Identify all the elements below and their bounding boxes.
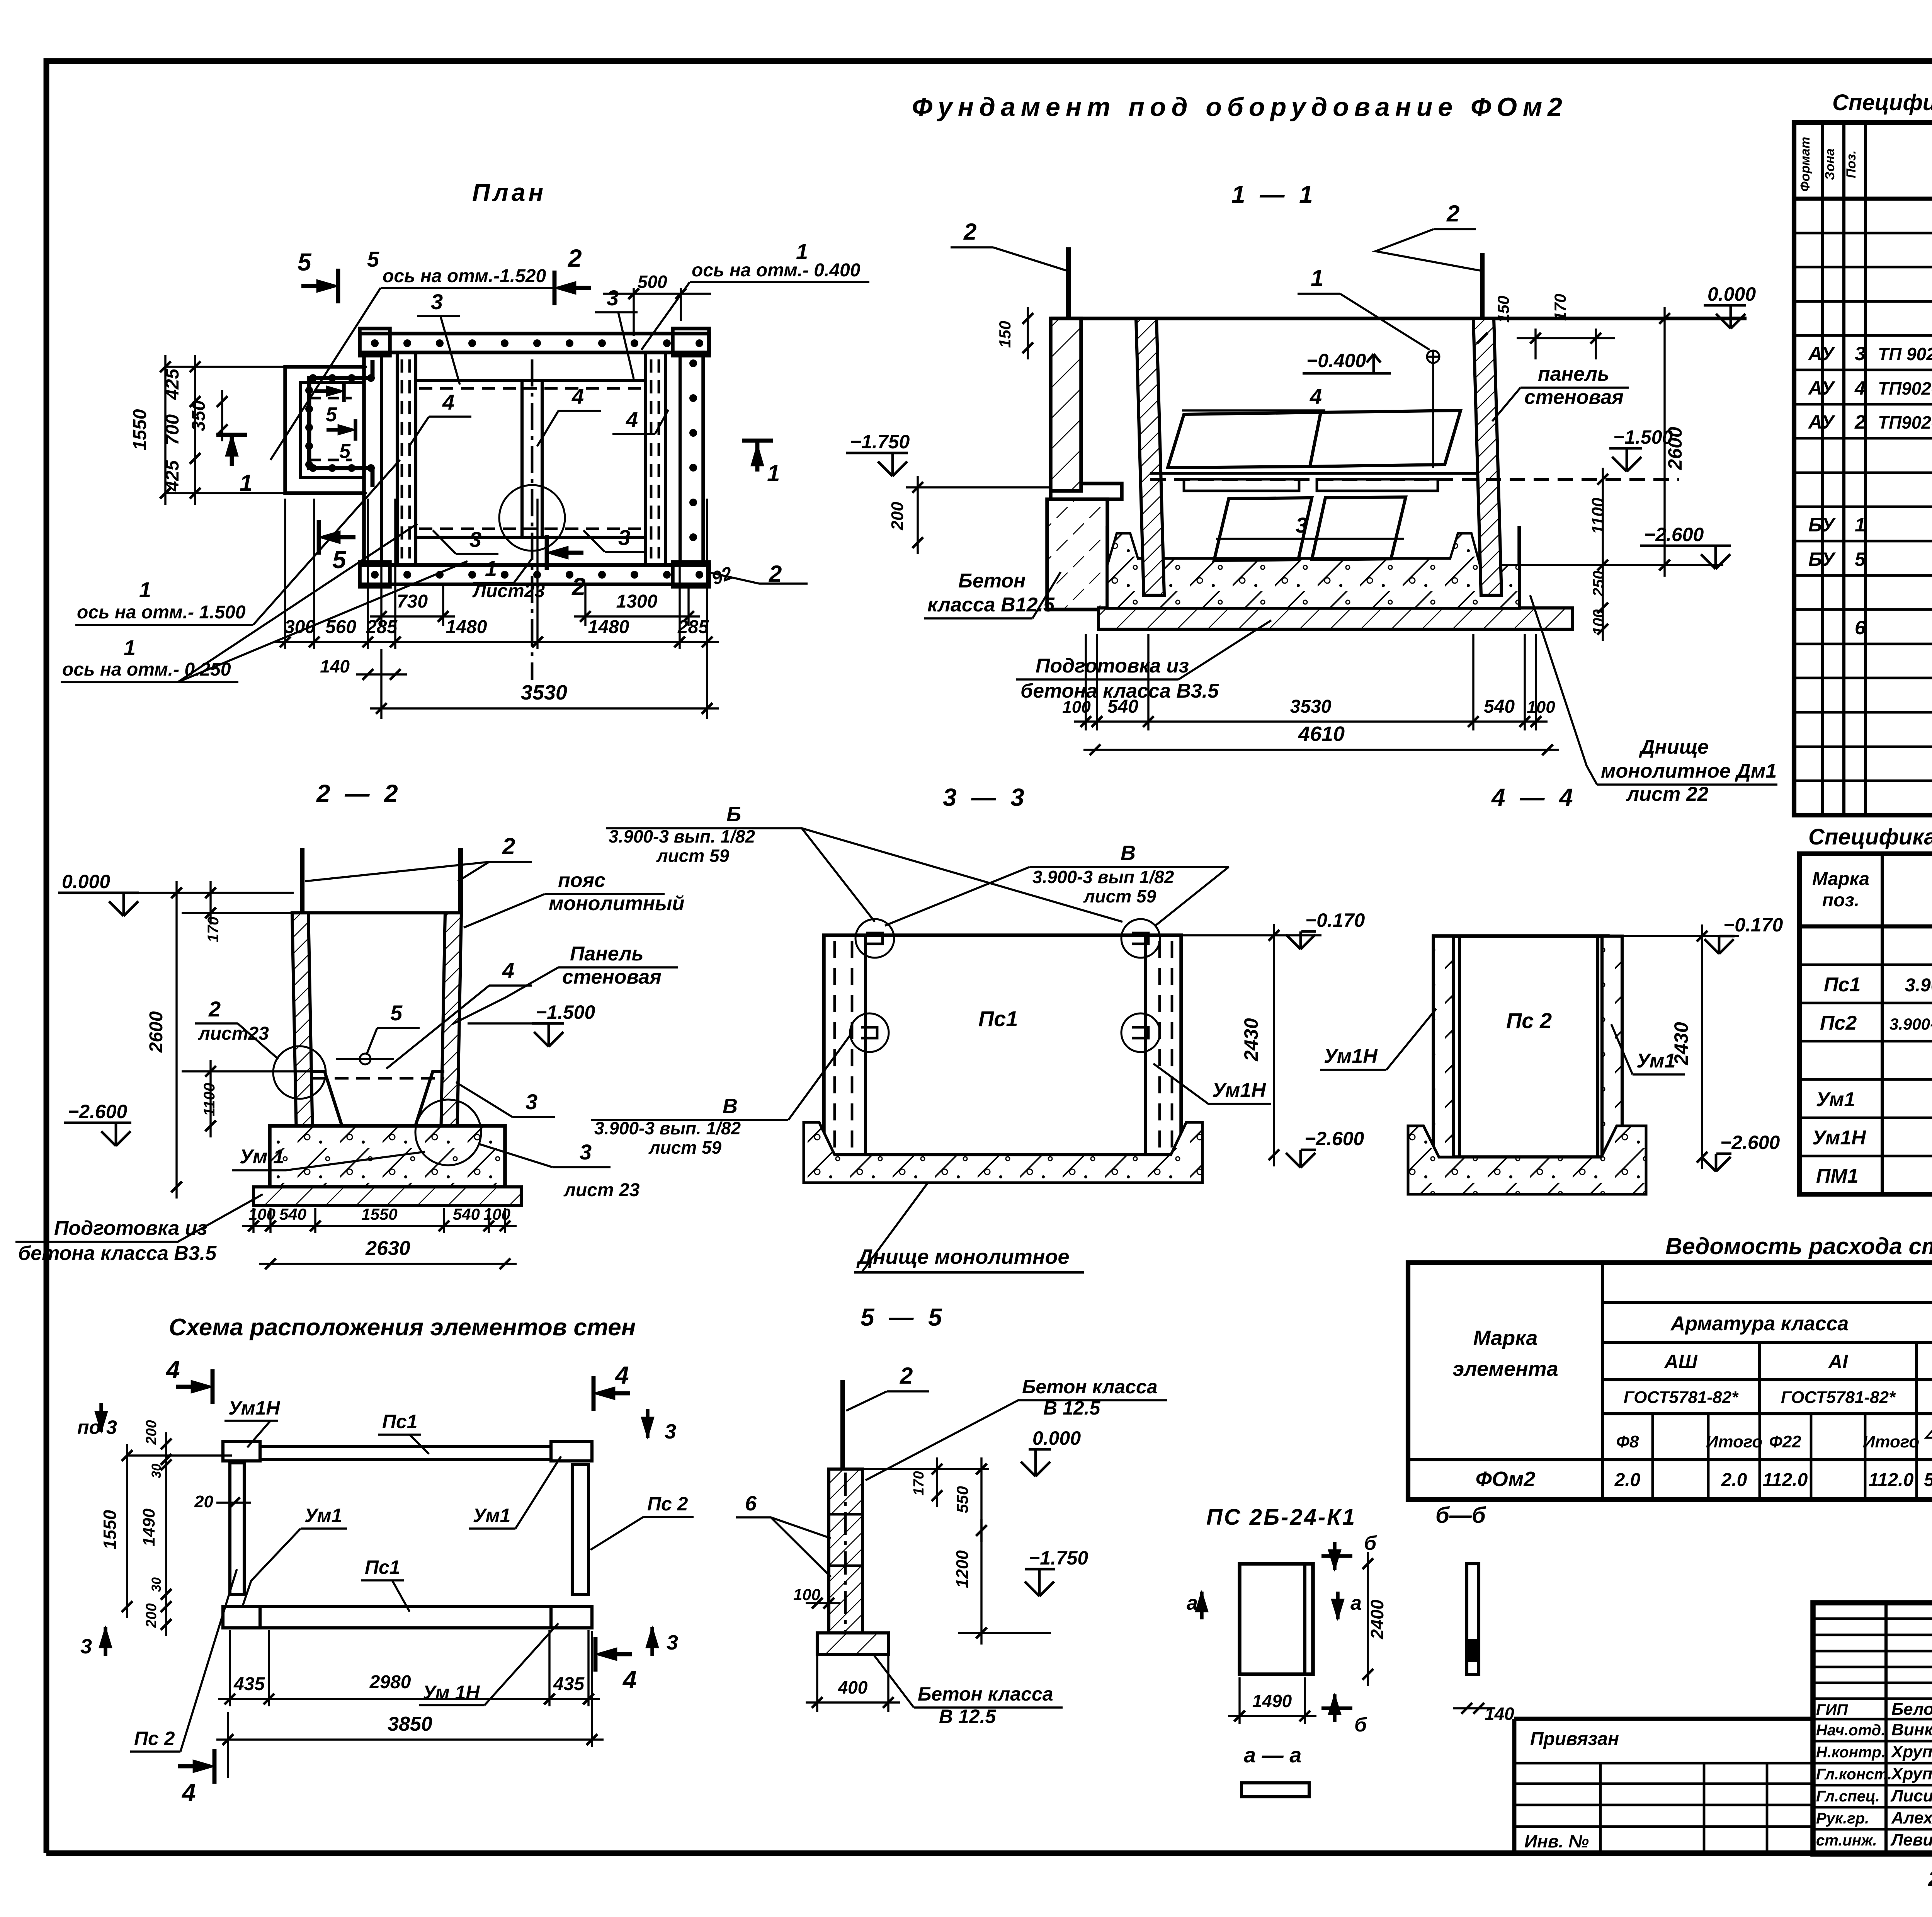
svg-text:Спецификация фундамента под об: Спецификация фундамента под оборудование…: [1832, 90, 1932, 115]
steel consumption table: [1408, 1263, 1932, 1500]
svg-text:ГОСТ5781-82*: ГОСТ5781-82*: [1781, 1388, 1896, 1407]
svg-text:2: 2: [208, 997, 221, 1021]
section 5-5 wall: [840, 1380, 845, 1469]
svg-text:1100: 1100: [1588, 497, 1607, 534]
svg-text:Пс 2: Пс 2: [647, 1493, 688, 1515]
dim chain 1100/250/100 right: [1602, 468, 1604, 641]
svg-text:АI: АI: [1828, 1351, 1848, 1372]
ground top line: [1051, 317, 1747, 320]
svg-text:Пс1: Пс1: [1824, 974, 1861, 996]
svg-text:Ум1: Ум1: [304, 1505, 342, 1526]
svg-text:1: 1: [240, 470, 252, 496]
section mark 2 top: [553, 271, 557, 305]
svg-text:Пс2: Пс2: [1820, 1012, 1857, 1034]
svg-text:ТП902-2-434.87: ТП902-2-434.87: [1878, 412, 1932, 432]
svg-text:1550: 1550: [361, 1205, 397, 1223]
svg-text:стеновая: стеновая: [1524, 386, 1624, 409]
svg-text:2 — 2: 2 — 2: [316, 780, 402, 807]
bottom lean concrete: [1099, 608, 1573, 629]
svg-text:540: 540: [1484, 696, 1515, 717]
svg-text:лист 59: лист 59: [1083, 886, 1156, 906]
svg-text:−0.170: −0.170: [1305, 909, 1365, 931]
svg-text:1: 1: [767, 460, 780, 486]
svg-text:Ведомость расхода стали на: Ведомость расхода стали на элемент, кг: [1665, 1233, 1932, 1259]
scheme top panel Пс1: [223, 1447, 592, 1459]
svg-text:поз.: поз.: [1822, 890, 1859, 911]
svg-text:−2.600: −2.600: [1720, 1132, 1780, 1153]
svg-text:1200: 1200: [953, 1550, 972, 1588]
svg-text:2: 2: [1854, 411, 1866, 433]
svg-text:Бетон класса: Бетон класса: [918, 1683, 1053, 1705]
svg-text:1: 1: [139, 577, 151, 602]
svg-text:Марка: Марка: [1812, 869, 1869, 889]
svg-text:3.900-3, вып.3/82: 3.900-3, вып.3/82: [1905, 975, 1932, 996]
section 3-3 panel: [824, 935, 1181, 1155]
svg-text:2980: 2980: [369, 1672, 411, 1692]
svg-text:3: 3: [469, 527, 481, 552]
svg-text:100: 100: [248, 1205, 276, 1223]
svg-text:3: 3: [526, 1090, 537, 1114]
svg-text:Ум1Н: Ум1Н: [1212, 1079, 1266, 1102]
svg-text:бетона класса В3.5: бетона класса В3.5: [18, 1242, 217, 1265]
section mark 5 bottom: [317, 520, 321, 555]
svg-text:1480: 1480: [588, 617, 629, 637]
svg-text:Панель: Панель: [570, 943, 644, 965]
svg-text:3.900-3 вып. 1/82: 3.900-3 вып. 1/82: [594, 1118, 741, 1138]
svg-text:3.900-3; вып.1/82; 3/82; Л21: 3.900-3; вып.1/82; 3/82; Л21: [1889, 1015, 1932, 1033]
svg-text:2430: 2430: [1240, 1018, 1262, 1061]
svg-text:170: 170: [911, 1471, 927, 1495]
svg-text:АУ: АУ: [1808, 411, 1836, 433]
svg-text:560: 560: [325, 617, 356, 637]
svg-text:2: 2: [571, 573, 586, 601]
svg-text:2600: 2600: [1664, 427, 1686, 470]
svg-text:2: 2: [1446, 201, 1459, 226]
svg-text:1490: 1490: [139, 1508, 158, 1546]
b-b strip: [1467, 1564, 1479, 1674]
svg-text:Белоус: Белоус: [1891, 1700, 1932, 1719]
level line -1.500: [1150, 472, 1477, 475]
svg-text:2: 2: [568, 244, 582, 272]
svg-text:3: 3: [431, 289, 443, 314]
svg-text:2630: 2630: [365, 1237, 410, 1260]
svg-text:б: б: [1364, 1532, 1377, 1554]
svg-text:4: 4: [442, 390, 454, 414]
svg-text:2.0: 2.0: [1614, 1470, 1641, 1490]
svg-text:1490: 1490: [1252, 1691, 1292, 1711]
svg-text:2.0: 2.0: [1721, 1470, 1747, 1490]
svg-text:Бетон: Бетон: [958, 570, 1026, 592]
svg-text:−2.600: −2.600: [1644, 524, 1704, 545]
svg-text:3: 3: [1855, 343, 1866, 364]
scheme section marks 4: [211, 1369, 215, 1404]
pit trapezoid: [313, 1071, 444, 1144]
equipment slabs pos 3: [1214, 498, 1312, 560]
svg-text:Хрупало: Хрупало: [1890, 1764, 1932, 1783]
svg-text:1: 1: [124, 635, 136, 660]
svg-text:1: 1: [1855, 514, 1866, 536]
svg-text:550: 550: [953, 1486, 971, 1513]
svg-text:3: 3: [80, 1635, 92, 1658]
Ум1 label + circle: [415, 1100, 481, 1165]
svg-text:ТП 902-2-434.87: ТП 902-2-434.87: [1878, 344, 1932, 364]
svg-text:3: 3: [667, 1631, 678, 1654]
svg-text:5: 5: [332, 546, 347, 574]
appendage dashed rect: [309, 397, 352, 400]
wall panel right: [1473, 318, 1502, 595]
svg-text:Днище: Днище: [1639, 736, 1709, 758]
svg-text:2: 2: [900, 1363, 913, 1389]
section mark 1 left: [216, 433, 247, 437]
svg-text:Н.контр.: Н.контр.: [1816, 1744, 1886, 1761]
svg-text:Формат: Формат: [1798, 137, 1813, 192]
svg-text:5: 5: [1855, 548, 1866, 570]
tie bar right: [1480, 253, 1485, 318]
svg-text:−2.600: −2.600: [68, 1101, 128, 1122]
specification table 1: [1794, 123, 1932, 815]
svg-text:элемента: элемента: [1452, 1357, 1558, 1381]
svg-text:5: 5: [298, 248, 312, 276]
svg-text:1550: 1550: [130, 409, 150, 450]
svg-text:425: 425: [162, 368, 183, 400]
svg-text:−0.170: −0.170: [1723, 914, 1783, 936]
svg-text:4: 4: [614, 1361, 629, 1389]
svg-text:а — а: а — а: [1244, 1743, 1301, 1767]
svg-text:Хрупало: Хрупало: [1890, 1742, 1932, 1761]
svg-text:170: 170: [205, 917, 222, 943]
svg-text:Привязан: Привязан: [1530, 1729, 1619, 1749]
dim 150 left: [1027, 307, 1029, 359]
scheme dims bottom: [229, 1630, 231, 1706]
svg-text:4: 4: [622, 1666, 637, 1694]
svg-text:5: 5: [326, 403, 337, 426]
svg-text:4: 4: [571, 384, 584, 409]
svg-text:200: 200: [888, 502, 907, 531]
dim 2400: [1367, 1552, 1369, 1686]
svg-text:4: 4: [165, 1356, 180, 1384]
svg-text:200: 200: [143, 1603, 160, 1628]
svg-text:Ум1: Ум1: [1636, 1050, 1675, 1072]
dim 2430 3-3: [1273, 924, 1275, 1166]
svg-text:100: 100: [483, 1205, 510, 1223]
svg-text:Поз.: Поз.: [1844, 150, 1859, 178]
bottom tray 3-3: [804, 1122, 1202, 1183]
svg-text:План: План: [472, 179, 546, 206]
svg-text:пояс: пояс: [558, 869, 605, 892]
section mark 2 bottom: [545, 535, 549, 570]
svg-text:540: 540: [453, 1205, 480, 1223]
section 1-1 bottom dims: [1085, 634, 1087, 730]
svg-text:1480: 1480: [446, 617, 487, 637]
svg-text:ФОм2: ФОм2: [1476, 1468, 1536, 1491]
svg-text:Марка: Марка: [1473, 1326, 1538, 1350]
svg-text:3.900-3 вып 1/82: 3.900-3 вып 1/82: [1032, 867, 1174, 887]
svg-text:30: 30: [149, 1577, 164, 1592]
svg-text:2600: 2600: [146, 1011, 167, 1053]
svg-text:Подготовка из: Подготовка из: [54, 1217, 207, 1239]
left strip Ум1Н: [1434, 936, 1454, 1157]
svg-text:150: 150: [996, 321, 1014, 348]
left wall foot: [1051, 484, 1122, 499]
tie bar left: [1066, 247, 1071, 318]
svg-text:6: 6: [1855, 617, 1866, 638]
equipment slabs pos 4: [1168, 412, 1321, 468]
svg-text:Ум1: Ум1: [1816, 1088, 1855, 1111]
svg-text:4610: 4610: [1298, 722, 1345, 746]
svg-text:5: 5: [339, 440, 351, 463]
svg-text:350: 350: [189, 400, 209, 431]
svg-text:20: 20: [194, 1492, 213, 1511]
svg-text:−1.750: −1.750: [850, 431, 910, 453]
dims right 150 170: [1517, 337, 1615, 339]
svg-text:3.900-3 вып. 1/82: 3.900-3 вып. 1/82: [609, 826, 755, 846]
plan dims bottom: [380, 538, 382, 626]
svg-text:3 — 3: 3 — 3: [943, 783, 1028, 811]
plan view: [360, 334, 709, 352]
section 4-4 panel: [1434, 936, 1608, 1157]
svg-text:Ф22: Ф22: [1769, 1432, 1801, 1451]
svg-text:54.8: 54.8: [1924, 1470, 1932, 1490]
svg-text:БУ: БУ: [1808, 548, 1836, 570]
svg-text:Пс1: Пс1: [382, 1411, 418, 1432]
wall panel left: [1136, 318, 1164, 595]
svg-text:112.0: 112.0: [1763, 1470, 1808, 1490]
svg-text:АУ: АУ: [1808, 377, 1836, 399]
dim 1100: [209, 1060, 211, 1137]
svg-text:В 12.5: В 12.5: [939, 1706, 997, 1727]
dim 500 top: [633, 288, 634, 336]
dim 100: [806, 1602, 840, 1604]
svg-text:500: 500: [638, 272, 667, 292]
svg-text:100: 100: [1062, 698, 1091, 717]
dim 200 left: [917, 476, 918, 554]
svg-text:140: 140: [1485, 1704, 1514, 1724]
svg-text:лист 22: лист 22: [1626, 783, 1709, 805]
svg-text:Нач.отд.: Нач.отд.: [1816, 1722, 1885, 1739]
svg-text:1: 1: [1311, 265, 1323, 291]
svg-text:Лисичкин: Лисичкин: [1890, 1786, 1932, 1805]
svg-text:Рук.гр.: Рук.гр.: [1816, 1810, 1869, 1827]
svg-text:425: 425: [162, 460, 183, 492]
svg-text:ось на отм.-1.520: ось на отм.-1.520: [383, 266, 546, 286]
svg-text:30: 30: [149, 1464, 164, 1478]
svg-text:Ум1Н: Ум1Н: [228, 1397, 280, 1419]
scheme right panel Пс2: [572, 1464, 588, 1594]
svg-text:Ум1: Ум1: [473, 1505, 510, 1526]
svg-text:170: 170: [1551, 294, 1569, 321]
svg-text:435: 435: [233, 1674, 265, 1694]
svg-text:4: 4: [502, 958, 514, 982]
section mark 5 top: [336, 269, 340, 303]
svg-text:лист 59: лист 59: [656, 846, 730, 866]
svg-text:22529-03 29 Копировал Максим: 22529-03 29 Копировал Максимова: [1928, 1866, 1932, 1891]
dim 2600: [175, 881, 177, 1199]
svg-text:Алехова: Алехова: [1891, 1808, 1932, 1827]
svg-text:1100: 1100: [201, 1083, 218, 1116]
svg-text:Схема расположения элементов: Схема расположения элементов стен: [169, 1314, 636, 1341]
svg-text:−1.750: −1.750: [1029, 1547, 1088, 1569]
svg-text:2: 2: [502, 833, 515, 859]
svg-text:285: 285: [366, 617, 398, 637]
svg-text:а: а: [1350, 1592, 1362, 1614]
left corner block: [1047, 499, 1107, 609]
svg-text:1550: 1550: [100, 1510, 120, 1549]
svg-text:Бетон класса: Бетон класса: [1022, 1376, 1158, 1398]
svg-text:б—б: б—б: [1435, 1503, 1486, 1528]
svg-text:Ум1Н: Ум1Н: [1812, 1127, 1866, 1149]
bottom tray 4-4: [1408, 1126, 1646, 1194]
scheme bottom panel Пс1: [223, 1607, 592, 1628]
svg-text:Итого: Итого: [1706, 1432, 1762, 1451]
title block: [1512, 1719, 1517, 1853]
svg-text:лист 59: лист 59: [648, 1137, 722, 1158]
svg-text:2400: 2400: [1367, 1599, 1387, 1639]
svg-text:5: 5: [367, 247, 379, 271]
svg-text:4: 4: [1310, 384, 1322, 409]
svg-text:Левицкий: Левицкий: [1890, 1830, 1932, 1849]
svg-text:АУ: АУ: [1808, 343, 1836, 364]
dim 400: [806, 1701, 900, 1703]
svg-text:Ум1Н: Ум1Н: [1324, 1045, 1378, 1067]
svg-text:монолитное Дм1: монолитное Дм1: [1601, 760, 1777, 782]
plan dim 140: [356, 673, 407, 675]
svg-text:Инв. №: Инв. №: [1524, 1831, 1589, 1851]
plan dim 3530: [370, 707, 719, 709]
scheme dims left: [126, 1444, 128, 1618]
section 2-2: [300, 848, 304, 913]
svg-text:стеновая: стеновая: [562, 966, 662, 988]
svg-text:1: 1: [485, 556, 497, 581]
svg-text:б: б: [1354, 1714, 1367, 1736]
svg-text:ст.инж.: ст.инж.: [1816, 1832, 1877, 1849]
monolithic bottom Dm1: [1107, 526, 1519, 608]
svg-text:0.000: 0.000: [1032, 1427, 1081, 1449]
svg-text:Лист23: Лист23: [472, 581, 545, 601]
svg-text:200: 200: [143, 1420, 160, 1445]
svg-text:Пс 2: Пс 2: [1506, 1008, 1552, 1033]
svg-text:ГИП: ГИП: [1816, 1701, 1848, 1718]
svg-text:3: 3: [580, 1140, 592, 1164]
svg-text:ТП902-2-434.87: ТП902-2-434.87: [1878, 378, 1932, 398]
svg-text:730: 730: [397, 591, 428, 612]
svg-text:540: 540: [1107, 696, 1138, 717]
5-5 foot: [817, 1633, 888, 1655]
left retaining wall: [1051, 318, 1081, 491]
svg-text:Арматура класса: Арматура класса: [1670, 1313, 1849, 1335]
svg-text:ось на отм.- 1.500: ось на отм.- 1.500: [77, 602, 246, 623]
section 2-2 bottom dims: [252, 1208, 254, 1233]
svg-text:0.000: 0.000: [62, 871, 110, 892]
svg-text:4: 4: [626, 407, 638, 432]
dim 2600 right: [1663, 307, 1665, 577]
svg-text:−0.400: −0.400: [1306, 350, 1366, 371]
svg-text:250: 250: [1590, 571, 1607, 597]
svg-text:Пс1: Пс1: [365, 1556, 400, 1578]
svg-text:В: В: [1121, 841, 1136, 865]
svg-text:4 — 4: 4 — 4: [1491, 783, 1577, 811]
svg-text:4: 4: [1854, 377, 1866, 399]
svg-text:Зона: Зона: [1823, 148, 1837, 180]
svg-text:Ум 1: Ум 1: [240, 1146, 284, 1168]
svg-text:140: 140: [320, 656, 350, 676]
svg-text:2: 2: [963, 219, 976, 245]
plan left pit appendage: [285, 367, 364, 493]
plan dims left: [165, 366, 367, 368]
svg-text:100: 100: [1590, 609, 1607, 635]
svg-text:∠100: ∠100: [1923, 1426, 1932, 1442]
svg-text:−2.600: −2.600: [1304, 1128, 1364, 1149]
walls: [292, 913, 313, 1156]
bottom slab: [270, 1126, 505, 1187]
small section marks 5 in appendage: [342, 381, 346, 402]
svg-text:1300: 1300: [616, 591, 658, 612]
dim 1490: [1228, 1715, 1316, 1717]
svg-text:Подготовка из: Подготовка из: [1036, 655, 1189, 677]
dim 2430 4-4: [1701, 924, 1703, 1169]
svg-text:100: 100: [793, 1585, 820, 1604]
svg-text:100: 100: [1527, 698, 1555, 717]
svg-text:285: 285: [677, 617, 709, 637]
right strip Ум1: [1602, 936, 1622, 1157]
svg-text:2430: 2430: [1670, 1022, 1692, 1065]
svg-text:Днище монолитное: Днище монолитное: [856, 1245, 1070, 1268]
svg-text:112.0: 112.0: [1869, 1470, 1914, 1490]
svg-text:1 — 1: 1 — 1: [1231, 180, 1317, 208]
svg-text:150: 150: [1494, 296, 1512, 323]
svg-text:монолитный: монолитный: [549, 892, 684, 915]
svg-text:Фундамент под оборудование: Фундамент под оборудование ФОм2: [912, 92, 1568, 122]
svg-text:3530: 3530: [521, 681, 567, 704]
svg-text:400: 400: [838, 1677, 868, 1697]
svg-text:3: 3: [607, 286, 619, 310]
anchor detail circles: [855, 919, 894, 958]
svg-text:ГОСТ5781-82*: ГОСТ5781-82*: [1624, 1388, 1739, 1407]
svg-text:700: 700: [162, 414, 183, 445]
svg-text:1: 1: [796, 239, 808, 264]
scheme left panel Пс2: [230, 1463, 244, 1594]
svg-text:лист 23: лист 23: [563, 1180, 640, 1200]
svg-text:Винклер: Винклер: [1891, 1720, 1932, 1739]
svg-text:Пс1: Пс1: [978, 1006, 1018, 1031]
svg-text:Б: Б: [726, 803, 741, 826]
svg-text:−1.500: −1.500: [536, 1001, 595, 1023]
svg-text:Гл.спец.: Гл.спец.: [1816, 1788, 1880, 1805]
svg-text:В: В: [723, 1095, 738, 1118]
svg-text:Ф8: Ф8: [1616, 1432, 1639, 1451]
svg-text:ПС 2Б-24-К1: ПС 2Б-24-К1: [1206, 1505, 1356, 1530]
svg-text:4: 4: [181, 1779, 196, 1806]
svg-text:Пс 2: Пс 2: [134, 1728, 175, 1749]
panel rect: [1240, 1564, 1313, 1674]
svg-text:Гл.конст.: Гл.конст.: [1816, 1766, 1892, 1783]
svg-text:Спецификация к схеме располож: Спецификация к схеме расположения элемен…: [1808, 824, 1932, 850]
svg-text:3: 3: [665, 1420, 676, 1443]
svg-text:3530: 3530: [1290, 696, 1332, 717]
svg-text:Итого: Итого: [1863, 1432, 1919, 1451]
svg-text:3: 3: [618, 525, 630, 550]
svg-text:3850: 3850: [388, 1713, 432, 1735]
svg-text:3: 3: [1296, 513, 1308, 537]
svg-text:6: 6: [745, 1492, 757, 1515]
svg-text:5 — 5: 5 — 5: [861, 1303, 946, 1331]
svg-text:БУ: БУ: [1808, 514, 1836, 536]
svg-text:панель: панель: [1538, 363, 1609, 385]
svg-text:540: 540: [279, 1205, 306, 1223]
svg-text:ось на отм.- 0.400: ось на отм.- 0.400: [692, 260, 861, 281]
svg-text:5: 5: [390, 1001, 403, 1025]
equipment seats: [1184, 479, 1299, 491]
section mark 1 right: [742, 439, 773, 443]
